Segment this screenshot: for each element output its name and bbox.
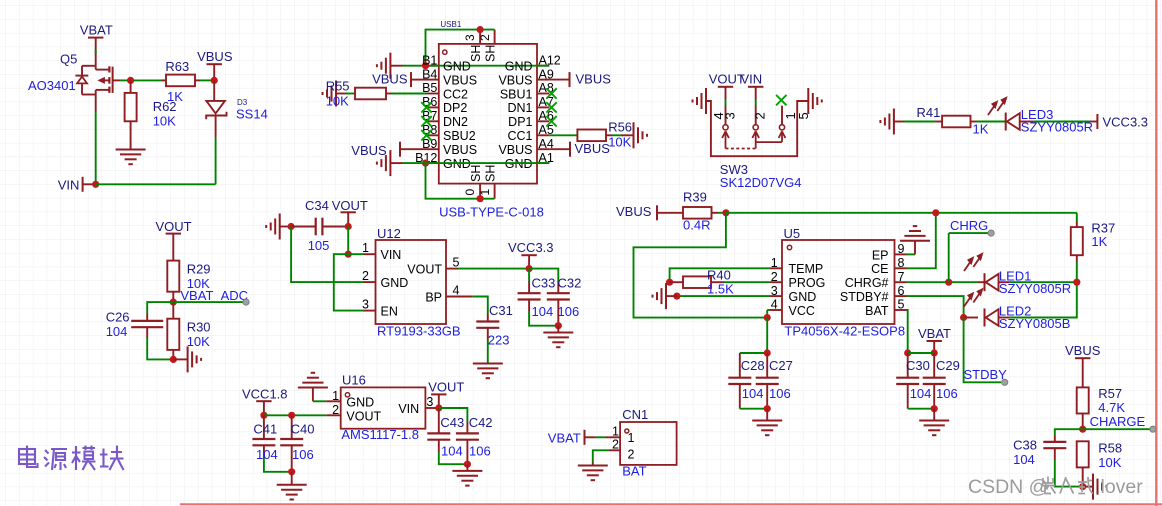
- wire LED1 to R37: [1009, 281, 1077, 283]
- wire D3 cathode to VIN line: [215, 137, 217, 184]
- svg-text:R29: R29: [187, 262, 211, 277]
- svg-text:R57: R57: [1098, 386, 1122, 401]
- svg-text:2: 2: [771, 270, 778, 284]
- wire VOUT down to U12 VIN: [347, 227, 349, 255]
- LED LED1 SZYY0805R: [978, 281, 985, 283]
- wire node to R63: [134, 79, 161, 81]
- capacitor C26 104: [147, 302, 173, 314]
- svg-text:VCC: VCC: [789, 304, 815, 318]
- regulator U16 AMS1117-1.8: [341, 387, 426, 428]
- svg-text:1: 1: [362, 241, 369, 255]
- ground right of R58: [1083, 486, 1093, 488]
- junction C29 top: [931, 349, 938, 356]
- port flag VOUT at R29: [166, 233, 181, 235]
- resistor R39 0.4R: [657, 212, 683, 214]
- wire Q5 gate to R62/R63 node: [120, 79, 131, 81]
- svg-text:STDBY#: STDBY#: [840, 290, 889, 304]
- svg-text:VBUS: VBUS: [1065, 343, 1101, 358]
- svg-text:4: 4: [771, 298, 778, 312]
- USB1 top shield pins SH 3 2: [479, 30, 481, 44]
- svg-text:2: 2: [628, 448, 635, 462]
- ground right of R30: [173, 358, 187, 360]
- sheet border right edge: [1155, 0, 1157, 506]
- svg-text:GND: GND: [789, 290, 817, 304]
- junction C40 gnd: [288, 468, 295, 475]
- port flag VOUT at U16 VIN: [431, 393, 446, 395]
- junction C32/C33 gnd: [555, 322, 562, 329]
- junction top shield: [477, 26, 484, 33]
- junction VBAT_ADC node: [170, 299, 177, 306]
- sheet border bottom edge: [180, 503, 1162, 505]
- svg-text:0: 0: [463, 189, 477, 196]
- svg-text:10K: 10K: [608, 135, 631, 150]
- ground right of SW3: [797, 100, 808, 102]
- wire gnd to U16 pin1: [313, 400, 326, 402]
- svg-text:VBAT: VBAT: [548, 430, 581, 445]
- junction node VIN: [92, 181, 99, 188]
- connector USB1 USB-TYPE-C-018 body: [439, 44, 537, 184]
- svg-text:1: 1: [771, 256, 778, 270]
- capacitor C32 106: [557, 281, 559, 293]
- svg-text:2: 2: [332, 403, 339, 417]
- ground left of R41: [894, 121, 906, 123]
- svg-text:VBUS: VBUS: [616, 204, 652, 219]
- USB1 bottom shield pins SH 0 1: [479, 184, 481, 199]
- svg-text:VCC1.8: VCC1.8: [242, 387, 288, 402]
- wire R39 node to U5 VCC: [634, 213, 768, 318]
- svg-text:10K: 10K: [1098, 455, 1121, 470]
- ground left of B12: [390, 162, 402, 164]
- svg-text:105: 105: [308, 238, 330, 253]
- net flag VBAT at CN1: [584, 430, 586, 445]
- svg-text:SH: SH: [484, 165, 498, 182]
- svg-text:CC1: CC1: [507, 129, 532, 143]
- junction bottom shield: [477, 195, 484, 202]
- wire C34 gnd to U12 GND pin: [291, 227, 363, 283]
- svg-text:3: 3: [771, 284, 778, 298]
- ground below C32: [557, 326, 559, 333]
- svg-text:2: 2: [612, 438, 619, 452]
- svg-text:106: 106: [769, 386, 791, 401]
- junction VCC1.8: [260, 412, 267, 419]
- wire VBUS run to R37: [726, 212, 1077, 214]
- wire VCC pin: [767, 309, 770, 311]
- capacitor C30 104: [907, 353, 909, 378]
- svg-text:VBAT: VBAT: [80, 23, 113, 38]
- svg-text:BAT: BAT: [865, 304, 889, 318]
- svg-text:3: 3: [426, 395, 433, 409]
- svg-text:VBAT_ADC: VBAT_ADC: [180, 288, 248, 303]
- power flag VBUS at D3: [207, 63, 222, 65]
- wire Q5 drain to VIN line: [95, 95, 97, 113]
- svg-text:VBUS: VBUS: [576, 71, 612, 86]
- svg-text:1: 1: [332, 389, 339, 403]
- title text dianyuan-moku (power module) stylized glyphs: [19, 446, 124, 471]
- svg-text:SBU2: SBU2: [443, 129, 476, 143]
- port flag VBUS at A4: [569, 142, 571, 157]
- ground below C27: [766, 409, 768, 421]
- svg-text:DN2: DN2: [443, 115, 468, 129]
- wire CN1 pin2 to ground: [593, 450, 609, 462]
- wire CE to VBUS run: [907, 213, 936, 268]
- wire ground to R41: [904, 121, 936, 123]
- resistor R57 4.7K: [1082, 358, 1084, 387]
- svg-text:VOUT: VOUT: [156, 219, 192, 234]
- svg-text:PROG: PROG: [789, 276, 826, 290]
- svg-text:GND: GND: [505, 60, 533, 74]
- svg-text:VBUS: VBUS: [351, 143, 387, 158]
- no-connect X A8: [546, 88, 556, 98]
- svg-text:C32: C32: [558, 276, 582, 291]
- svg-text:CE: CE: [871, 262, 888, 276]
- svg-text:DP1: DP1: [508, 115, 532, 129]
- svg-text:U12: U12: [377, 226, 401, 241]
- chip U5 TP4056X-42-ESOP8: [782, 240, 895, 324]
- svg-text:C26: C26: [106, 309, 130, 324]
- svg-text:R63: R63: [165, 59, 189, 74]
- svg-text:9: 9: [898, 242, 905, 256]
- svg-text:SH: SH: [484, 45, 498, 62]
- svg-text:GND: GND: [346, 396, 374, 410]
- svg-text:RT9193-33GB: RT9193-33GB: [377, 324, 461, 339]
- no-connect X B7: [421, 116, 431, 126]
- junction LED2 left: [960, 314, 967, 321]
- svg-text:7: 7: [898, 270, 905, 284]
- LED LED2 SZYY0805B: [964, 317, 978, 319]
- capacitor C31 223 on BP: [473, 297, 488, 314]
- ground below R62: [116, 149, 146, 151]
- wire BAT pin to C30/C29: [907, 310, 908, 353]
- svg-text:Q5: Q5: [60, 52, 77, 67]
- svg-text:104: 104: [441, 443, 463, 458]
- svg-text:5: 5: [453, 256, 460, 270]
- port flag VIN: [82, 177, 84, 192]
- svg-text:223: 223: [488, 333, 510, 348]
- wire LED2 to R37 branch: [1009, 282, 1077, 317]
- junction node gate/R62/R63: [127, 77, 134, 84]
- svg-text:C34: C34: [305, 198, 329, 213]
- resistor R40 1.5K: [670, 281, 683, 283]
- svg-text:C28: C28: [741, 358, 765, 373]
- junction B12 gnd: [422, 160, 429, 167]
- svg-text:104: 104: [910, 386, 932, 401]
- svg-text:C30: C30: [906, 358, 930, 373]
- svg-text:VCC3.3: VCC3.3: [508, 240, 554, 255]
- svg-text:B6: B6: [422, 95, 437, 109]
- diode D3 SS14 schottky: [213, 80, 215, 101]
- capacitor C29 106: [933, 353, 935, 378]
- regulator U12 RT9193-33GB: [376, 240, 447, 324]
- svg-text:10K: 10K: [153, 114, 176, 129]
- junction R40 left: [666, 279, 673, 286]
- svg-text:VBUS: VBUS: [498, 143, 532, 157]
- resistor R29 10K: [172, 234, 174, 261]
- junction B1 gnd: [422, 62, 429, 69]
- wire CHRG label to LED1 node: [948, 233, 950, 282]
- junction CE/VBUS: [932, 209, 939, 216]
- capacitor C27 106: [766, 353, 768, 378]
- wire TEMP to R40: [670, 268, 770, 282]
- no-connect X B6: [421, 102, 431, 112]
- svg-text:SS14: SS14: [236, 107, 268, 122]
- svg-text:C41: C41: [253, 421, 277, 436]
- svg-text:C38: C38: [1013, 437, 1037, 452]
- capacitor C28 104: [739, 353, 741, 378]
- resistor R41 1K: [936, 121, 942, 123]
- junction C30 top: [904, 349, 911, 356]
- no-connect X A7: [546, 102, 556, 112]
- no-connect X A6: [546, 116, 556, 126]
- svg-text:GND: GND: [443, 60, 471, 74]
- svg-text:VIN: VIN: [741, 72, 763, 87]
- svg-text:BP: BP: [425, 290, 442, 304]
- resistor R63 1K: [161, 79, 166, 81]
- svg-text:USB-TYPE-C-018: USB-TYPE-C-018: [439, 204, 544, 219]
- svg-text:CC2: CC2: [443, 87, 468, 101]
- svg-text:2: 2: [753, 112, 768, 119]
- wire LED2 node to STDBY label: [964, 318, 1001, 383]
- capacitor C43 104: [438, 408, 440, 433]
- svg-text:104: 104: [742, 386, 764, 401]
- svg-text:USB1: USB1: [440, 20, 461, 29]
- junction U12 VIN node: [345, 251, 352, 258]
- resistor R55 10K with ground: [336, 93, 348, 95]
- capacitor C42 106: [439, 408, 468, 421]
- svg-text:SH: SH: [469, 165, 483, 182]
- wire B12 to bottom shield loop: [426, 163, 495, 199]
- svg-text:lover: lover: [1101, 476, 1144, 498]
- svg-text:STDBY: STDBY: [964, 367, 1008, 382]
- svg-text:A12: A12: [539, 53, 561, 67]
- no-connect X SW3 pin1: [776, 95, 786, 105]
- port flag VCC3.3 at U12: [521, 254, 536, 256]
- svg-text:SK12D07VG4: SK12D07VG4: [720, 175, 802, 190]
- svg-text:3: 3: [463, 34, 477, 41]
- svg-text:8: 8: [898, 256, 905, 270]
- ground below C42: [466, 464, 468, 471]
- svg-text:VBUS: VBUS: [443, 143, 477, 157]
- svg-text:VBUS: VBUS: [372, 71, 408, 86]
- junction VCC3.3: [526, 265, 533, 272]
- junction C27 gnd: [764, 405, 771, 412]
- svg-text:CHRG#: CHRG#: [845, 276, 889, 290]
- svg-text:U16: U16: [342, 373, 366, 388]
- svg-text:TEMP: TEMP: [789, 262, 824, 276]
- ground left of B1: [390, 65, 402, 67]
- svg-text:106: 106: [558, 304, 580, 319]
- junction LED1/R37: [1073, 279, 1080, 286]
- ground below C29: [933, 409, 935, 421]
- svg-text:4.7K: 4.7K: [1098, 400, 1125, 415]
- svg-text:1: 1: [612, 425, 619, 439]
- svg-text:104: 104: [256, 447, 278, 462]
- svg-text:VOUT: VOUT: [332, 198, 368, 213]
- svg-text:VOUT: VOUT: [346, 410, 381, 424]
- ground left of SW3: [706, 100, 711, 102]
- svg-text:1K: 1K: [1091, 234, 1107, 249]
- ground below C31: [473, 363, 503, 365]
- wire GND row B12 to A1: [402, 162, 549, 164]
- junction R30/C26 gnd: [170, 356, 177, 363]
- resistor R30 10K: [172, 302, 174, 319]
- ground left of U5 GND: [666, 295, 677, 297]
- wire STDBY# to LED2: [907, 296, 964, 317]
- svg-text:10K: 10K: [326, 94, 349, 109]
- wire R39 out: [718, 212, 726, 214]
- svg-text:CHARGE: CHARGE: [1090, 414, 1146, 429]
- svg-text:B1: B1: [422, 53, 437, 67]
- svg-text:VOUT: VOUT: [407, 262, 442, 276]
- wire C30-C29 top: [908, 352, 935, 354]
- junction CHARGE node: [1079, 426, 1086, 433]
- junction C40 top: [288, 412, 295, 419]
- connector CN1 BAT: [620, 422, 677, 465]
- wire R41 to LED3: [977, 121, 1006, 123]
- svg-text:R62: R62: [153, 99, 177, 114]
- junction CHRG tap: [945, 279, 952, 286]
- port flag VIN at SW3: [748, 86, 763, 88]
- wire VIN run: [96, 183, 216, 185]
- svg-text:U5: U5: [784, 226, 801, 241]
- junction U16 VIN: [435, 404, 442, 411]
- wire VCC3.3 to C32: [529, 269, 558, 281]
- svg-text:C29: C29: [936, 358, 960, 373]
- port flag VBUS at B9: [399, 142, 401, 157]
- power flag VBAT at C29: [927, 340, 942, 342]
- wire LED3 to VCC3.3: [1033, 121, 1090, 123]
- junction C42 gnd: [464, 461, 471, 468]
- USB1 left pin stubs: [427, 65, 439, 67]
- wire VBAT to Q5 source: [95, 38, 97, 66]
- svg-text:106: 106: [469, 443, 491, 458]
- svg-text:VBUS: VBUS: [575, 141, 611, 156]
- resistor R58 10K: [1077, 441, 1089, 467]
- svg-text:104: 104: [106, 324, 128, 339]
- resistor R56 10K with ground: [549, 134, 577, 136]
- svg-text:VBUS: VBUS: [197, 49, 233, 64]
- svg-text:VIN: VIN: [381, 248, 402, 262]
- svg-text:CSDN @: CSDN @: [968, 476, 1048, 498]
- wire VIN-EN loop: [334, 254, 364, 310]
- svg-text:R40: R40: [707, 268, 731, 283]
- svg-text:VBUS: VBUS: [498, 73, 532, 87]
- ground above U16 pin1: [298, 387, 328, 389]
- svg-text:BAT: BAT: [622, 463, 646, 478]
- resistor R62 10K: [130, 80, 132, 93]
- svg-text:104: 104: [1013, 452, 1035, 467]
- svg-text:DN1: DN1: [507, 101, 532, 115]
- svg-text:R41: R41: [917, 105, 941, 120]
- svg-text:EN: EN: [381, 304, 398, 318]
- junction C34/VOUT: [345, 223, 352, 230]
- svg-text:AMS1117-1.8: AMS1117-1.8: [341, 427, 419, 442]
- svg-text:1: 1: [628, 431, 635, 445]
- svg-text:GND: GND: [381, 276, 409, 290]
- svg-text:VIN: VIN: [58, 178, 80, 193]
- junction VCC node: [764, 314, 771, 321]
- svg-text:TP4056X-42-ESOP8: TP4056X-42-ESOP8: [784, 324, 905, 339]
- port flag VBUS at R39: [656, 205, 658, 220]
- port flag VCC3.3 at LED3: [1090, 121, 1097, 123]
- svg-text:6: 6: [898, 284, 905, 298]
- svg-text:10K: 10K: [187, 334, 210, 349]
- svg-text:R56: R56: [608, 120, 632, 135]
- port flag VBUS at B4: [410, 72, 412, 87]
- svg-text:106: 106: [936, 386, 958, 401]
- wire CHRG# to LED1: [907, 281, 979, 283]
- wire GND pin to ground: [677, 295, 770, 297]
- power flag VBAT: [88, 37, 103, 39]
- wire GND row B1 to A12: [402, 65, 549, 67]
- LED LED3 SZYY0805R: [1005, 113, 1007, 131]
- svg-text:2: 2: [362, 269, 369, 283]
- svg-text:CHRG: CHRG: [950, 218, 988, 233]
- junction R58 gnd: [1079, 483, 1086, 490]
- svg-text:VCC3.3: VCC3.3: [1103, 114, 1149, 129]
- wire USB1 top shield loop: [426, 30, 495, 66]
- svg-text:C27: C27: [769, 358, 793, 373]
- svg-text:VIN: VIN: [398, 402, 419, 416]
- svg-text:CN1: CN1: [622, 407, 648, 422]
- svg-text:C43: C43: [440, 415, 464, 430]
- svg-text:5: 5: [898, 298, 905, 312]
- switch SW3 SK12D07VG4: [725, 87, 727, 100]
- wire R63 to VBUS node: [200, 79, 214, 81]
- ground below C40: [291, 472, 293, 485]
- svg-text:VOUT: VOUT: [428, 380, 464, 395]
- svg-text:C42: C42: [469, 415, 493, 430]
- svg-text:0.4R: 0.4R: [683, 218, 710, 233]
- svg-text:R55: R55: [326, 79, 350, 94]
- resistor R37 1K: [1076, 213, 1078, 221]
- ground below CN1 pin2: [578, 465, 608, 467]
- svg-text:R39: R39: [683, 190, 707, 205]
- svg-text:VOUT: VOUT: [709, 72, 745, 87]
- wire U12 VOUT to VCC3.3 node: [458, 268, 529, 270]
- svg-text:EP: EP: [872, 248, 889, 262]
- junction node VBUS/D3: [211, 77, 218, 84]
- svg-text:106: 106: [292, 447, 314, 462]
- capacitor C41 104: [263, 415, 265, 439]
- svg-text:SH: SH: [469, 45, 483, 62]
- capacitor C38 104: [1055, 429, 1083, 436]
- svg-text:1: 1: [478, 189, 492, 196]
- junction C29 gnd: [931, 405, 938, 412]
- svg-text:AO3401: AO3401: [28, 78, 76, 93]
- svg-text:1.5K: 1.5K: [707, 282, 734, 297]
- svg-text:1K: 1K: [973, 122, 989, 137]
- power flag VBUS at R57: [1075, 357, 1090, 359]
- svg-text:4: 4: [453, 284, 460, 298]
- port flag VCC1.8: [256, 400, 271, 402]
- capacitor C33 104: [528, 269, 530, 281]
- wire VCC1.8 to U16 VOUT: [264, 414, 326, 416]
- port flag VOUT at SW3: [718, 86, 733, 88]
- svg-text:SBU1: SBU1: [500, 87, 533, 101]
- capacitor C40 106: [291, 415, 293, 439]
- junction C27 top: [764, 349, 771, 356]
- port flag VBUS at A9: [569, 72, 571, 87]
- svg-text:3: 3: [723, 112, 738, 119]
- svg-text:VBUS: VBUS: [443, 73, 477, 87]
- svg-text:R58: R58: [1098, 441, 1122, 456]
- wire VCC node to C28/C27: [740, 318, 767, 353]
- svg-text:C40: C40: [291, 421, 315, 436]
- transistor Q5 AO3401 PMOS: [82, 65, 96, 67]
- svg-text:VBAT: VBAT: [918, 326, 951, 341]
- svg-text:104: 104: [532, 304, 554, 319]
- USB1 right pin stubs: [537, 65, 549, 67]
